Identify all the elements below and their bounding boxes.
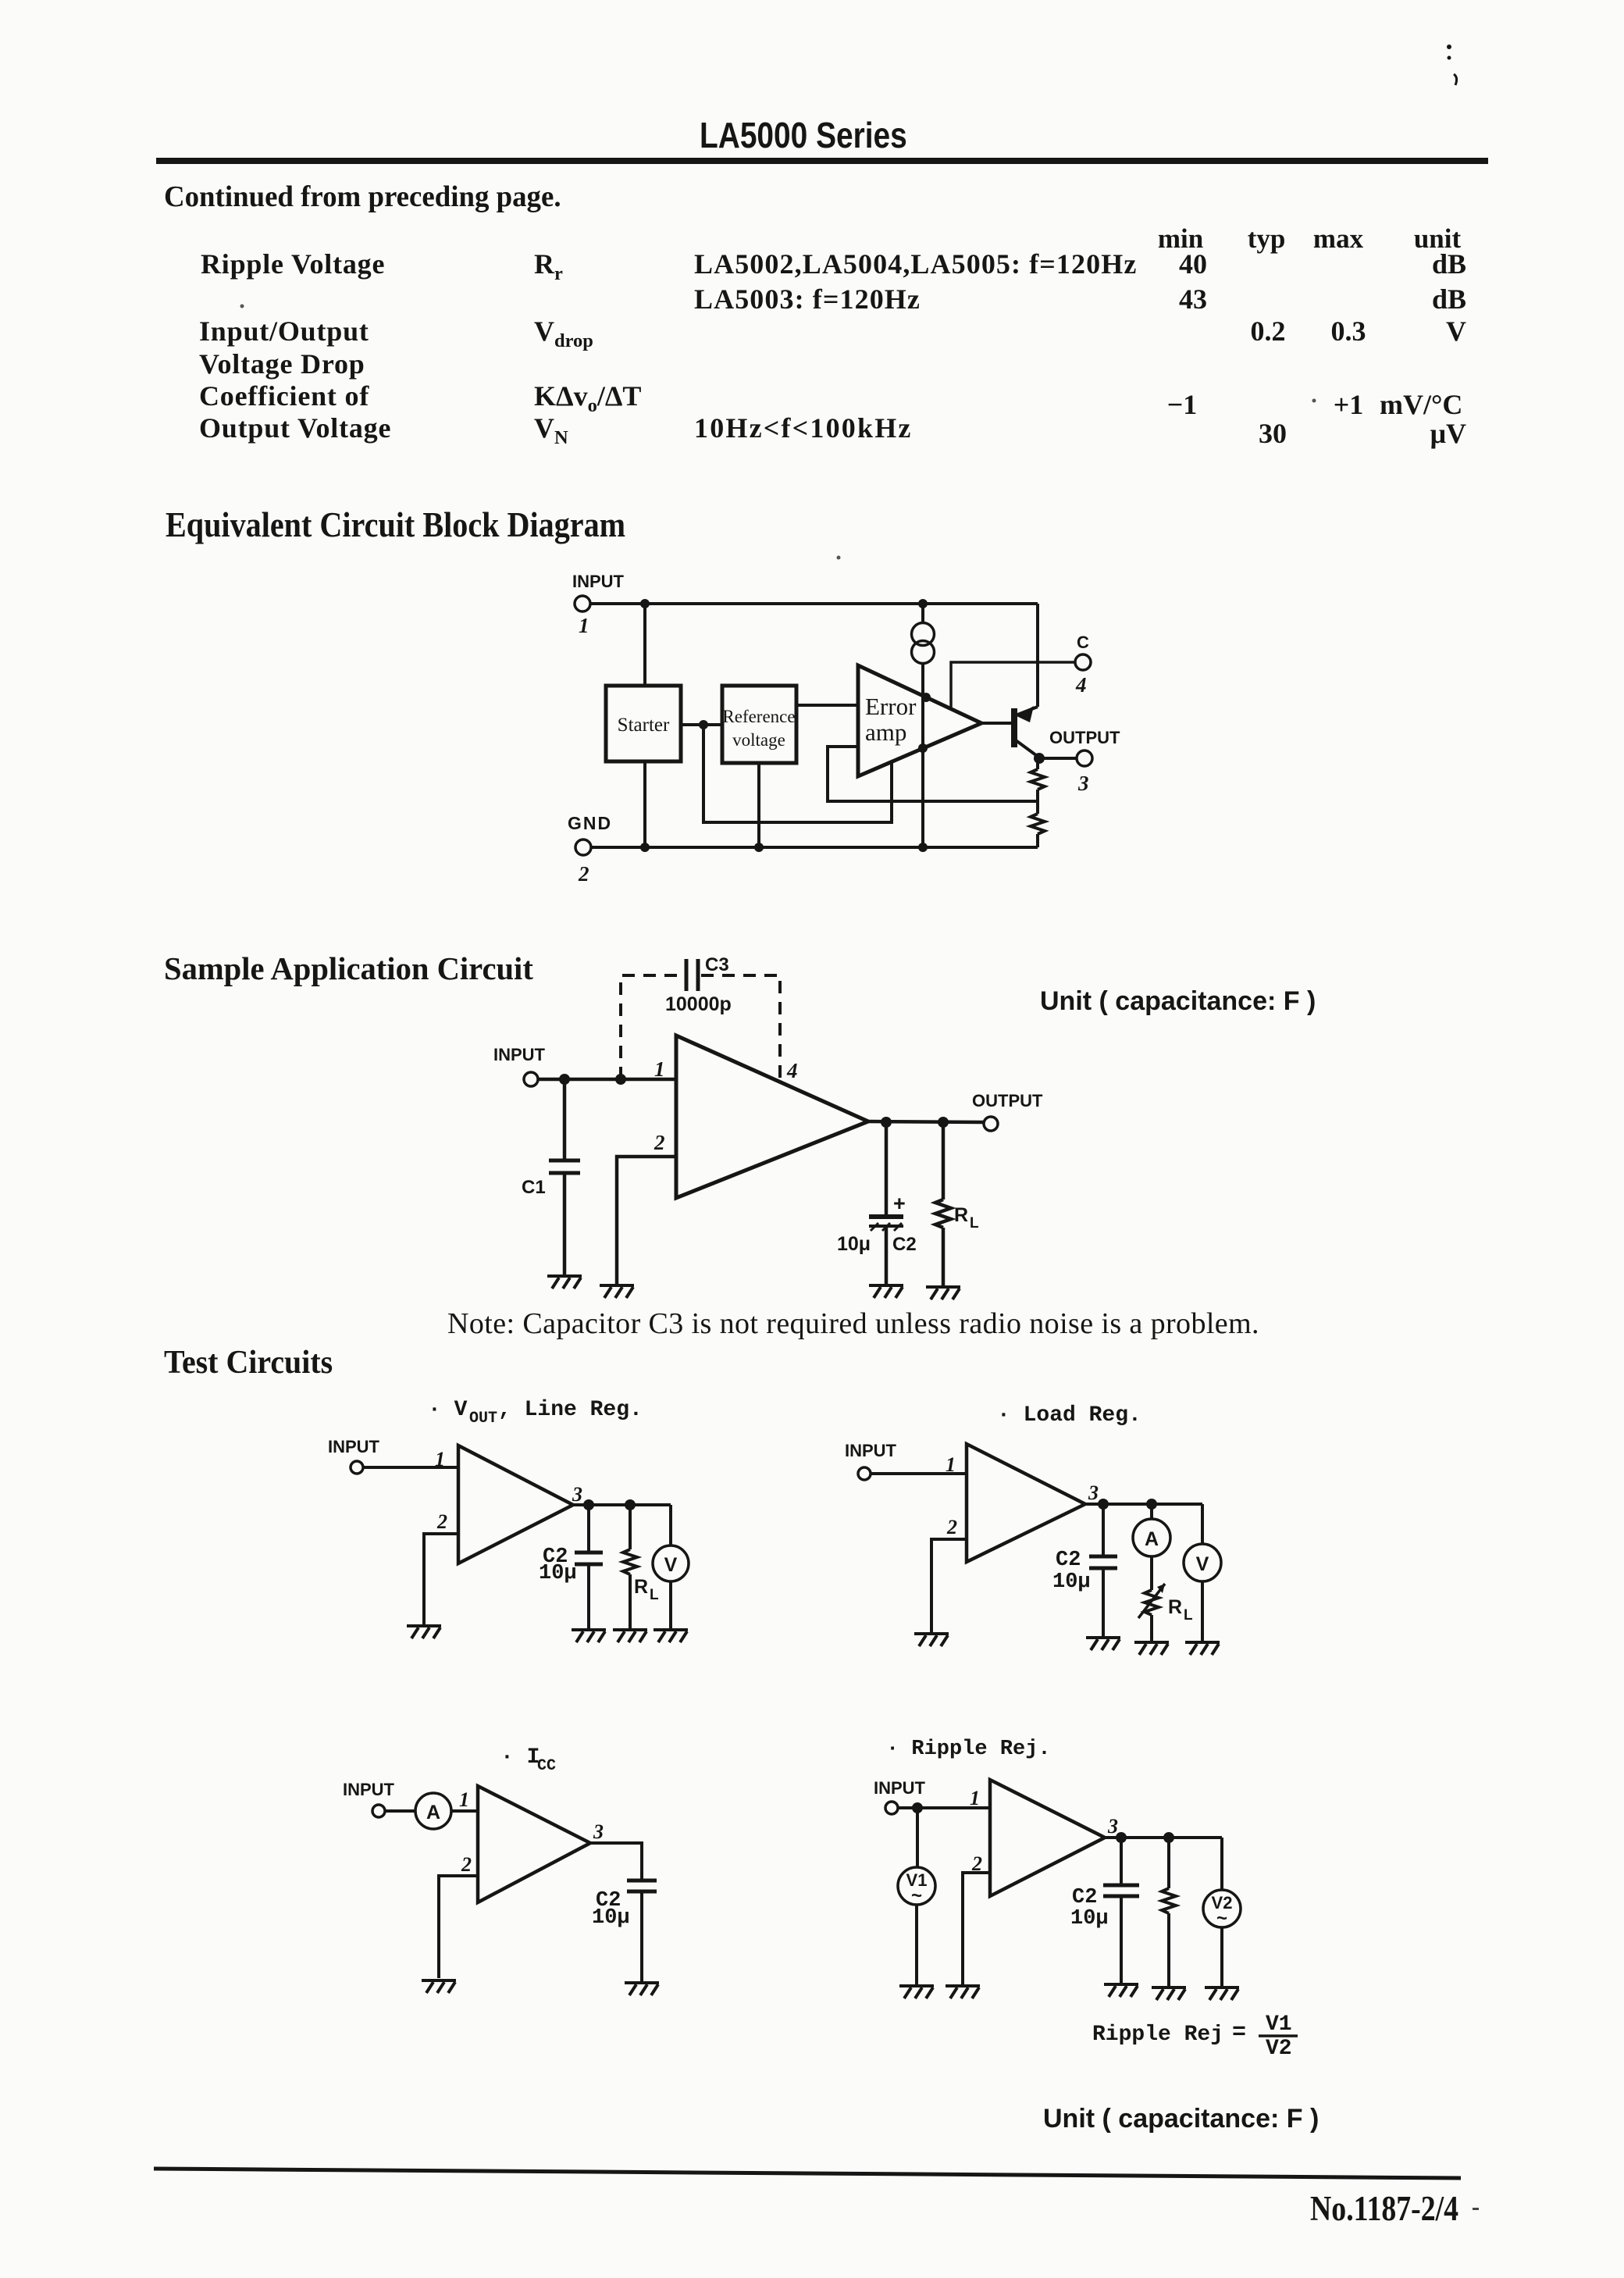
ground (C2) xyxy=(869,1285,903,1298)
wire: input to pin 1 xyxy=(538,1078,676,1082)
speck (mid page) xyxy=(837,556,841,560)
node: C1 branch xyxy=(559,1074,570,1085)
wire: to output pin xyxy=(1039,757,1077,760)
svg-text:· V: · V xyxy=(428,1398,468,1422)
svg-text:V: V xyxy=(664,1554,678,1576)
svg-text:CC: CC xyxy=(537,1757,556,1775)
svg-text:1: 1 xyxy=(459,1788,469,1811)
node: A branch xyxy=(1146,1499,1157,1510)
svg-text:C2: C2 xyxy=(1056,1549,1081,1572)
svg-text:V: V xyxy=(1196,1553,1209,1575)
transistor Q1 collector xyxy=(1016,740,1039,758)
resistor R1 xyxy=(1036,758,1039,769)
capacitor C2 xyxy=(587,1505,590,1553)
node: starter at bottom rail xyxy=(640,843,650,852)
wire: C pin to amp top edge xyxy=(951,662,1075,708)
svg-text:Starter: Starter xyxy=(618,715,670,736)
svg-text:3: 3 xyxy=(593,1820,604,1843)
transistor Q1 emitter xyxy=(1016,707,1038,715)
svg-text:2: 2 xyxy=(436,1510,447,1533)
GND pin terminal xyxy=(575,840,591,855)
wire: output xyxy=(573,1503,671,1506)
svg-text:GND: GND xyxy=(568,813,612,833)
ground (pin 2) xyxy=(600,1285,634,1298)
svg-text:4: 4 xyxy=(1075,673,1087,697)
ground (pin2) xyxy=(422,1980,456,1993)
svg-text:1: 1 xyxy=(946,1453,956,1476)
svg-text:amp: amp xyxy=(865,718,906,746)
ground (pin2) xyxy=(914,1634,949,1646)
ground (V1) xyxy=(899,1986,934,1998)
speck (left margin) xyxy=(240,305,244,308)
wire: output xyxy=(1085,1503,1202,1506)
capacitor C2 xyxy=(1120,1838,1123,1885)
regulator triangle xyxy=(990,1780,1105,1896)
svg-text:OUTPUT: OUTPUT xyxy=(1049,728,1120,747)
variable resistor RL xyxy=(1145,1590,1159,1615)
regulator triangle xyxy=(967,1444,1085,1562)
ground (pin2) xyxy=(946,1986,980,1998)
node: RL branch xyxy=(625,1499,636,1510)
svg-text:10μ: 10μ xyxy=(1070,1907,1109,1930)
wire: pin 2 to ground xyxy=(931,1539,967,1632)
ground (V) xyxy=(1185,1642,1220,1655)
resistor RL xyxy=(942,1122,946,1200)
resistor RL xyxy=(629,1505,632,1549)
capacitor C1 xyxy=(563,1079,567,1160)
svg-text:V2: V2 xyxy=(1266,2037,1292,2061)
svg-text:3: 3 xyxy=(1107,1815,1118,1838)
wire: reference box down to bottom rail xyxy=(757,763,760,847)
wire: reference junction to error amp lower input xyxy=(703,725,892,822)
svg-text:10μ: 10μ xyxy=(1052,1570,1091,1594)
ground (C1) xyxy=(547,1276,582,1289)
wire: rail down to starter xyxy=(643,604,646,686)
capacitor C2 xyxy=(1102,1504,1105,1556)
svg-text:1: 1 xyxy=(579,614,589,637)
source V2 xyxy=(1220,1838,1223,1890)
source V1 xyxy=(916,1808,919,1867)
block Starter xyxy=(606,686,681,761)
capacitor C2 xyxy=(627,1879,657,1883)
input terminal xyxy=(885,1802,898,1814)
svg-text:· I: · I xyxy=(500,1745,540,1770)
node: C2 branch xyxy=(881,1117,892,1128)
ammeter A xyxy=(1150,1504,1153,1519)
wire: pin 2 to ground xyxy=(963,1873,990,1984)
regulator triangle xyxy=(478,1786,590,1902)
wire: input to ammeter xyxy=(385,1809,415,1813)
input terminal xyxy=(524,1072,538,1086)
svg-text:L: L xyxy=(650,1587,659,1603)
svg-text:INPUT: INPUT xyxy=(874,1778,926,1798)
wire: dashed C3 path left xyxy=(621,975,682,1079)
ground (C2) xyxy=(572,1630,606,1642)
svg-text:C2: C2 xyxy=(1072,1886,1097,1909)
svg-text:Ripple Rej: Ripple Rej xyxy=(1092,2023,1223,2047)
wire: output xyxy=(1105,1836,1222,1839)
ground (R) xyxy=(1152,1987,1186,2000)
ground (RL) xyxy=(1134,1642,1169,1655)
svg-text:+: + xyxy=(893,1192,906,1215)
node: starter branch xyxy=(640,599,650,608)
node: V1 branch xyxy=(912,1802,923,1813)
svg-text:10μ: 10μ xyxy=(539,1562,577,1585)
svg-text:· Load Reg.: · Load Reg. xyxy=(997,1403,1141,1428)
svg-text:L: L xyxy=(970,1215,979,1232)
svg-text:=: = xyxy=(1232,2020,1246,2046)
wire: dashed C3 path right xyxy=(701,975,780,1081)
input terminal xyxy=(372,1805,385,1817)
svg-text:10μ: 10μ xyxy=(837,1233,871,1255)
svg-text:R: R xyxy=(954,1204,968,1226)
svg-text:3: 3 xyxy=(1077,772,1089,795)
resistor R2 xyxy=(1036,801,1039,814)
svg-text:~: ~ xyxy=(1216,1908,1227,1929)
voltmeter V xyxy=(1201,1504,1204,1544)
svg-text:2: 2 xyxy=(654,1131,665,1154)
speck xyxy=(1447,45,1451,49)
svg-text:4: 4 xyxy=(786,1059,798,1082)
ammeter A xyxy=(415,1793,451,1829)
svg-text:C1: C1 xyxy=(522,1177,546,1198)
wire: feedback from divider to amp xyxy=(828,747,1038,801)
ground (C2) xyxy=(1104,1984,1138,1997)
svg-text:R: R xyxy=(1168,1596,1182,1618)
current source I1 xyxy=(912,623,935,646)
wire: current source down through amp to bottom rail xyxy=(921,664,924,848)
svg-text:INPUT: INPUT xyxy=(845,1441,897,1460)
ground (C2) xyxy=(625,1983,659,1995)
ground (RL) xyxy=(926,1287,960,1299)
capacitor C3 xyxy=(685,959,689,991)
svg-text:INPUT: INPUT xyxy=(572,572,625,591)
capacitor C2 (electrolytic) xyxy=(885,1122,889,1215)
svg-text:Error: Error xyxy=(865,693,917,720)
speck (after page number) xyxy=(1473,2208,1479,2210)
speck (typ column) xyxy=(1312,399,1316,403)
node: C3 branch xyxy=(615,1074,626,1085)
svg-text:A: A xyxy=(1145,1528,1159,1550)
node: on amp top edge xyxy=(921,693,931,702)
svg-text:V1: V1 xyxy=(1266,2012,1292,2037)
svg-text:~: ~ xyxy=(911,1885,922,1906)
OUTPUT pin terminal xyxy=(1077,750,1092,766)
wire: input to pin 1 xyxy=(363,1466,458,1469)
svg-text:2: 2 xyxy=(578,862,589,886)
svg-text:OUT: OUT xyxy=(469,1410,497,1428)
block Reference voltage xyxy=(722,686,796,763)
wire: bottom rail xyxy=(591,846,1038,849)
svg-text:2: 2 xyxy=(946,1516,957,1538)
svg-text:L: L xyxy=(1184,1607,1193,1624)
wire: pin 2 to ground xyxy=(439,1876,478,1978)
op-amp Error amp xyxy=(858,665,981,776)
resistor R xyxy=(1167,1838,1170,1888)
ground (V) xyxy=(654,1630,688,1642)
wire: ammeter to pin 1 xyxy=(451,1809,478,1813)
svg-text:R: R xyxy=(634,1576,648,1598)
svg-text:10μ: 10μ xyxy=(592,1906,630,1930)
wire: rail to current source xyxy=(921,604,924,623)
node: C2 branch xyxy=(1116,1832,1127,1843)
ground (V2) xyxy=(1205,1987,1239,2000)
svg-text:3: 3 xyxy=(572,1483,582,1506)
wire: pin 2 to ground xyxy=(424,1534,458,1624)
svg-text:3: 3 xyxy=(1088,1481,1099,1504)
svg-text:, Line Reg.: , Line Reg. xyxy=(498,1398,643,1422)
svg-text:INPUT: INPUT xyxy=(328,1437,380,1456)
regulator triangle xyxy=(676,1036,868,1198)
wire: pin 2 to ground xyxy=(617,1157,676,1284)
svg-text:OUTPUT: OUTPUT xyxy=(972,1091,1043,1110)
wire: input top rail xyxy=(590,602,1038,605)
wire: starter down to bottom rail xyxy=(643,761,646,847)
svg-text:10000p: 10000p xyxy=(665,993,732,1015)
node: reference junction xyxy=(699,720,708,729)
svg-text:C: C xyxy=(1077,633,1089,652)
transistor Q1 base wire from amp xyxy=(981,722,1011,725)
node: on amp bottom edge xyxy=(918,743,928,753)
node: ref box bottom at rail xyxy=(754,843,764,852)
C pin terminal xyxy=(1075,654,1091,670)
wire: output to C2 xyxy=(590,1843,642,1881)
svg-text:INPUT: INPUT xyxy=(493,1045,546,1064)
ground (pin2) xyxy=(407,1626,441,1638)
wire: reference output to error amp input xyxy=(796,704,858,707)
input terminal xyxy=(351,1461,363,1474)
svg-text:· Ripple Rej.: · Ripple Rej. xyxy=(886,1738,1051,1761)
svg-text:1: 1 xyxy=(654,1057,665,1081)
regulator triangle xyxy=(458,1446,573,1563)
node: C2 branch xyxy=(1098,1499,1109,1510)
output terminal xyxy=(984,1117,998,1131)
voltmeter V xyxy=(669,1505,672,1545)
wire: output xyxy=(868,1121,984,1122)
wire: rail down to emitter xyxy=(1036,604,1039,707)
transistor Q1 bar xyxy=(1011,708,1017,747)
svg-text:INPUT: INPUT xyxy=(343,1780,395,1799)
node: C2 branch xyxy=(583,1499,594,1510)
svg-text:C3: C3 xyxy=(705,954,729,975)
svg-text:A: A xyxy=(426,1802,440,1823)
svg-text:voltage: voltage xyxy=(732,730,785,750)
svg-text:Reference: Reference xyxy=(722,707,795,726)
wire: input to pin 1 xyxy=(871,1472,967,1475)
ground (C2) xyxy=(1086,1638,1120,1650)
input terminal xyxy=(858,1467,871,1480)
wire: starter to reference xyxy=(681,723,722,726)
INPUT pin terminal xyxy=(575,596,590,611)
svg-text:C2: C2 xyxy=(892,1234,917,1255)
svg-text:1: 1 xyxy=(970,1787,980,1809)
wire: input to pin 1 xyxy=(898,1806,990,1809)
node: output xyxy=(1034,753,1045,764)
node: at bottom rail xyxy=(918,843,928,852)
ground (RL) xyxy=(613,1630,647,1642)
svg-text:2: 2 xyxy=(461,1853,472,1876)
node: current source branch xyxy=(918,599,928,608)
svg-text:1: 1 xyxy=(435,1448,445,1471)
node: RL branch xyxy=(938,1117,949,1128)
node: R branch xyxy=(1163,1832,1174,1843)
